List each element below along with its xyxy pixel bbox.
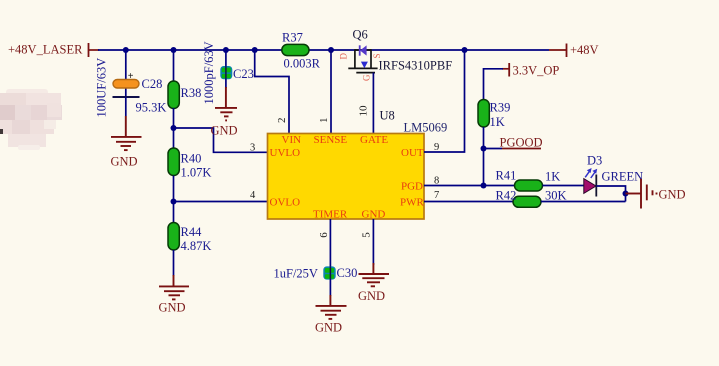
svg-text:30K: 30K [545,189,567,203]
wire TIMER pin6 to C30 [329,219,331,267]
svg-text:SENSE: SENSE [314,134,348,146]
svg-text:GREEN: GREEN [602,169,644,183]
svg-text:2: 2 [276,118,288,124]
resistor R42 [496,189,567,208]
node junction PGD/R41 [481,183,487,189]
wire PGD pin8 line [424,185,515,187]
svg-text:95.3K: 95.3K [136,101,167,115]
svg-text:D: D [339,53,349,60]
wire R38 branch top [173,50,175,83]
watermark mosaic blob [0,89,62,150]
node junction LED/GND [623,191,629,197]
svg-text:R39: R39 [490,101,511,115]
wire C23 branch [225,50,227,66]
resistor R37 [282,31,321,71]
ground right (rotated) [626,179,657,209]
svg-text:C23: C23 [233,67,254,81]
svg-text:3.3V_OP: 3.3V_OP [513,64,560,78]
wire OVLO [174,201,268,203]
wire R40 to node [173,176,175,225]
svg-text:OUT: OUT [401,147,424,159]
wire top rail [98,49,549,51]
resistor R44 [168,223,211,254]
ground below C30 [316,295,347,319]
svg-text:7: 7 [434,190,439,201]
svg-text:1uF/25V: 1uF/25V [274,267,318,281]
wire VIN branch jog [255,50,289,134]
wire R42 to LED cathode branch [541,201,626,203]
svg-text:R40: R40 [181,152,202,166]
svg-text:PGOOD: PGOOD [500,136,543,150]
svg-text:C30: C30 [337,266,358,280]
capacitor C23 [202,41,254,104]
wire OUT pin9 to top rail [424,50,465,152]
svg-text:D3: D3 [587,154,602,168]
svg-text:1K: 1K [490,115,505,129]
svg-text:1: 1 [318,118,330,124]
svg-text:TIMER: TIMER [313,209,348,221]
ground below C23 [215,87,237,120]
wire GND pin5 to ground [372,219,374,265]
svg-text:3: 3 [250,142,255,153]
svg-text:PGD: PGD [401,180,423,192]
node junction R40/R44/OVLO [171,199,177,205]
wire C23 to ground [225,79,227,88]
node junction above R38 [171,47,177,53]
resistor R38 [136,81,202,115]
capacitor C28 [95,58,163,118]
svg-text:GND: GND [362,209,386,221]
op-amp U1 : IC U8 LM5069 body [268,134,425,220]
port 3.3V_OP [502,63,559,78]
svg-text:U8: U8 [380,109,395,123]
wire C30 to ground [329,280,331,297]
svg-text:GND: GND [159,301,186,315]
Q6 arrow [361,62,368,69]
port +48V_LASER [8,43,99,58]
ground below pin5 [359,263,390,286]
wire SENSE branch [330,50,332,134]
svg-text:10: 10 [358,105,370,117]
resistor R39 [478,100,510,130]
port +48V [567,43,599,57]
node junction SENSE / Q6 drain [328,47,334,53]
svg-text:IRFS4310PBF: IRFS4310PBF [379,59,453,73]
node junction R38/R40/UVLO [171,125,177,131]
svg-text:GND: GND [111,155,138,169]
node junction Q6 source / OUT [462,47,468,53]
watermark dark dash [0,129,3,134]
ground below C28 [111,116,142,150]
svg-text:100UF/63V: 100UF/63V [95,58,109,118]
svg-text:UVLO: UVLO [270,147,301,159]
svg-text:PWR: PWR [400,197,425,209]
svg-text:1000pF/63V: 1000pF/63V [202,41,216,104]
svg-text:0.003R: 0.003R [284,57,321,71]
wire C28 to ground [125,97,127,116]
svg-text:GND: GND [211,124,238,138]
wire R44 to ground [173,250,175,276]
node junction PGOOD [481,146,487,152]
wire R38 to node [173,108,175,150]
wire to +48V port (maroon) [549,49,567,51]
svg-text:+48V: +48V [570,43,599,57]
resistor R41 [496,169,561,192]
svg-text:R38: R38 [181,86,202,100]
svg-text:VIN: VIN [282,134,302,146]
wire LED cathode [596,186,625,202]
diode D3 LED [584,154,643,197]
svg-text:6: 6 [318,232,330,238]
Q6 body diode [359,45,361,55]
svg-text:1K: 1K [545,170,560,184]
node junction above C28 [123,47,129,53]
wire PWR pin7 line [424,201,514,203]
wire Q6 gate to GATE pin [372,73,374,134]
svg-text:R37: R37 [282,31,303,45]
D3 arrow 2 [591,172,596,179]
svg-text:LM5069: LM5069 [404,121,448,135]
svg-text:GND: GND [358,289,385,303]
svg-text:Q6: Q6 [353,28,368,42]
node junction above C23 [223,47,229,53]
port PGOOD [484,136,543,150]
node junction VIN branch [252,47,258,53]
svg-text:GATE: GATE [360,134,388,146]
svg-text:4: 4 [250,190,256,201]
resistor R40 [168,148,211,180]
wire R39 to PGOOD node [483,127,485,186]
svg-text:R42: R42 [496,189,517,203]
svg-text:R41: R41 [496,169,517,183]
ground below R44 [159,275,189,299]
D3 arrow 1 [585,171,590,178]
svg-text:GND: GND [659,188,686,202]
wire C28 branch [125,50,127,97]
wire UVLO jog [174,128,268,152]
svg-text:C28: C28 [142,77,163,91]
svg-text:OVLO: OVLO [270,197,301,209]
svg-text:GND: GND [315,321,342,335]
svg-text:R44: R44 [181,225,203,239]
svg-text:+48V_LASER: +48V_LASER [8,43,83,57]
svg-text:1.07K: 1.07K [181,166,212,180]
wire 3.3V_OP to R39 [484,69,504,101]
transistor Q6 body [339,45,383,81]
svg-text:5: 5 [361,232,373,238]
svg-text:G: G [362,74,372,81]
wire R41 to LED [543,185,585,187]
capacitor C30 [274,266,358,281]
svg-text:4.87K: 4.87K [181,239,212,253]
